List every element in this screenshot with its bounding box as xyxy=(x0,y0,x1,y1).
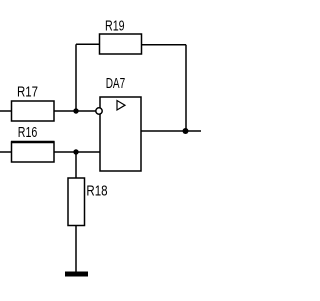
wire R16 to non-inverting input xyxy=(54,151,100,153)
wire feedback left vertical xyxy=(75,44,77,111)
op-amp amplification triangle symbol xyxy=(117,101,125,111)
wire op-amp output xyxy=(141,130,201,132)
resistor R16 xyxy=(12,142,55,162)
svg-text:R17: R17 xyxy=(17,84,38,100)
resistor R17 xyxy=(12,101,55,121)
svg-text:R19: R19 xyxy=(105,19,125,35)
op-amp U1 DA7 body xyxy=(100,97,141,171)
wire R19 right lead xyxy=(142,44,187,46)
resistor R19 xyxy=(100,34,142,54)
ground xyxy=(65,272,88,277)
inversion bubble on inverting input xyxy=(96,108,102,114)
wire feedback right vertical xyxy=(185,45,187,131)
wire input to R16 xyxy=(0,151,12,153)
svg-text:R16: R16 xyxy=(18,125,38,141)
resistor R18 xyxy=(68,178,85,226)
resistor R16 thick top edge xyxy=(11,141,55,143)
wire R17 to inverting input xyxy=(54,110,96,112)
junction node at inverting input xyxy=(73,108,78,113)
svg-text:DA7: DA7 xyxy=(106,76,126,92)
junction node at output feedback tap xyxy=(183,128,189,134)
wire R18 to ground xyxy=(75,226,77,272)
wire non-inverting node down to R18 xyxy=(75,152,77,178)
wire input to R17 xyxy=(0,110,12,112)
junction node at non-inverting input xyxy=(73,149,78,154)
svg-text:R18: R18 xyxy=(86,183,107,199)
wire R19 left lead xyxy=(76,43,100,45)
